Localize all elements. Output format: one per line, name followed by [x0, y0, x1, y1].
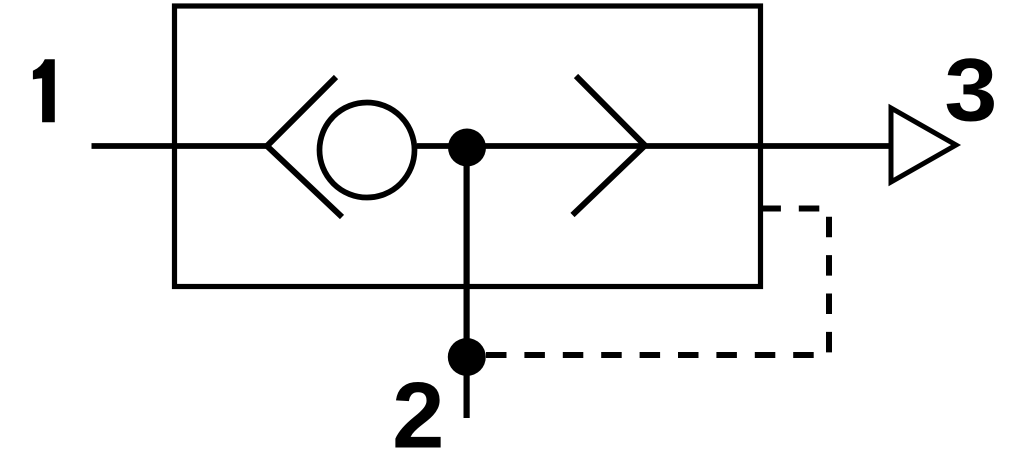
svg-text:3: 3 — [944, 40, 997, 140]
svg-text:2: 2 — [392, 363, 444, 468]
